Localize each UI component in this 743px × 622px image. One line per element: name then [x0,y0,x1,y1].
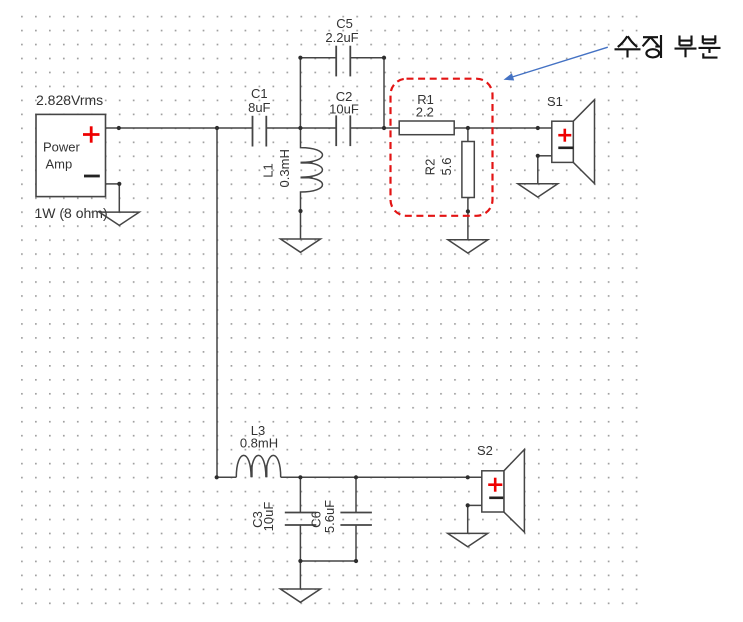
capacitor C6 [309,477,372,561]
node C6 bottom [354,559,358,563]
capacitor C2 [329,89,359,146]
wire bottom rail [217,476,482,478]
svg-text:S2: S2 [477,443,493,458]
node source plus pin [117,126,121,130]
node C5 branch top right [382,56,386,60]
annotation Korean text : 수정 부분 [615,35,721,58]
resistor R1 [399,92,454,135]
svg-text:2.828Vrms: 2.828Vrms [36,92,103,108]
wire to ground low-pass [299,561,301,589]
wire S2 bottom pin [468,505,482,533]
annotation red dashed box [391,79,493,216]
capacitor C1 [248,86,270,147]
plus terminal mark [83,133,100,136]
speaker S1 [547,94,595,184]
wire bottom cap rail [300,560,356,562]
svg-text:2.2: 2.2 [416,105,434,120]
capacitor C5 [325,16,358,76]
wire R2 bottom to ground [467,198,469,240]
source U1 Power Amp [35,92,108,221]
svg-text:Amp: Amp [46,157,73,172]
node S2 minus pin [466,503,470,507]
capacitor C3 [250,477,316,561]
node S1 minus pin [536,154,540,158]
svg-text:5.6: 5.6 [439,157,454,175]
node C3 top [298,475,302,479]
ground S1 [518,184,558,197]
node source minus pin [117,182,121,186]
node R2 bottom [466,209,470,213]
svg-text:S1: S1 [547,94,563,109]
svg-text:10uF: 10uF [329,101,359,116]
minus terminal mark [84,175,100,178]
node L3 left [215,475,219,479]
svg-text:R2: R2 [422,159,437,176]
inductor L3 [236,423,280,477]
node L1 bottom [298,209,302,213]
svg-text:Power: Power [43,140,81,155]
svg-text:C5: C5 [336,16,353,31]
svg-text:0.8mH: 0.8mH [240,436,278,451]
ground R2 [448,240,488,253]
svg-text:8uF: 8uF [248,100,270,115]
svg-text:5.6uF: 5.6uF [322,500,337,533]
wire L1 to ground [300,211,302,239]
node C3 bottom [298,559,302,563]
wire vertical branch to low-pass section [216,128,218,477]
wire main top rail [106,127,552,129]
node C5 branch top left [298,56,302,60]
node S2 plus pin [466,475,470,479]
node R1 R2 junction [466,126,470,130]
speaker S2 [477,443,524,532]
resistor R2 [422,142,474,198]
node C1 C5 L1 junction [298,126,302,130]
wire S1 bottom pin [538,156,552,184]
node C6 top [354,475,358,479]
node S1 plus pin [536,126,540,130]
wire C5 bypass branch [300,58,384,128]
inductor L1 [261,128,323,211]
node C5 right to rail junction [382,126,386,130]
svg-text:10uF: 10uF [261,502,276,532]
svg-text:1W (8 ohm): 1W (8 ohm) [35,205,108,221]
wire R2 top [467,128,469,142]
ground power amp [99,212,139,225]
svg-text:0.3mH: 0.3mH [277,149,292,187]
node main rail to low-pass branch [215,126,219,130]
ground L1 [281,239,321,252]
wire power amp bottom pin [106,184,120,212]
svg-text:C1: C1 [251,86,268,101]
svg-text:L1: L1 [261,163,276,177]
ground low-pass [280,589,320,602]
ground S2 [448,533,488,546]
annotation blue arrow [504,47,608,80]
svg-text:2.2uF: 2.2uF [325,30,358,45]
